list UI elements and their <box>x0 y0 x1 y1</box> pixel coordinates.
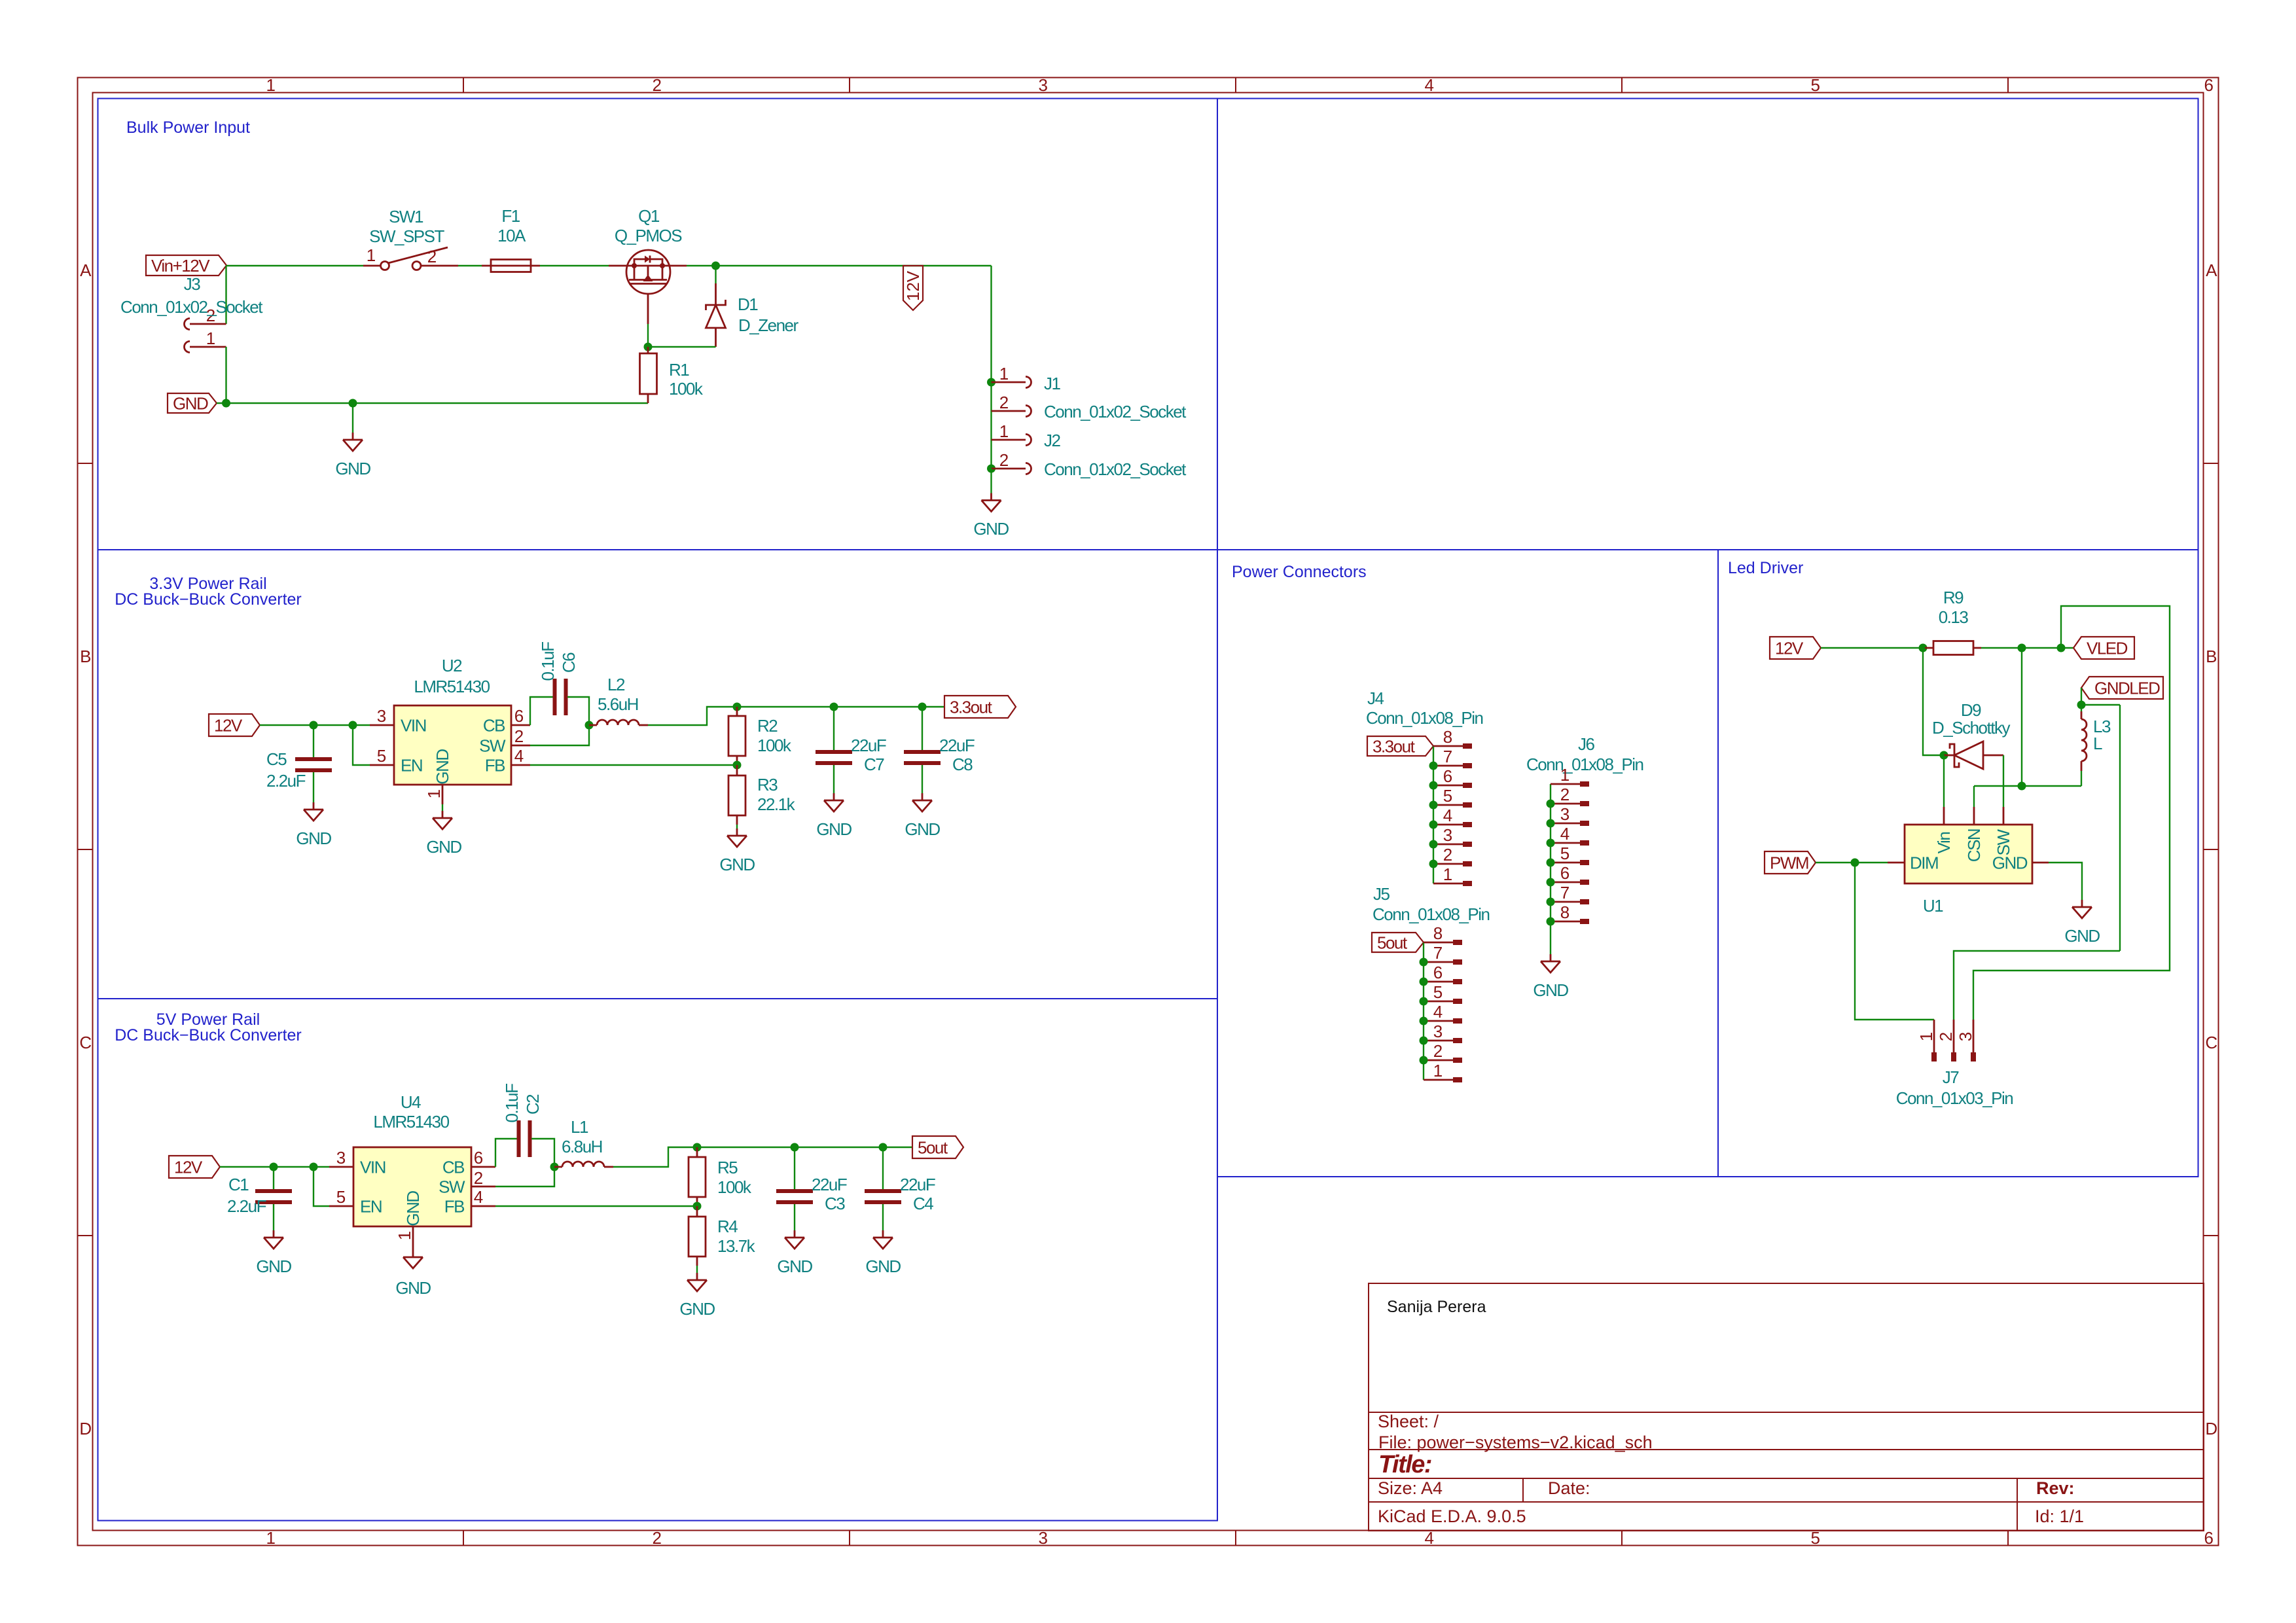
ground symbol (J6) <box>1541 954 1560 972</box>
svg-text:C1: C1 <box>228 1175 249 1194</box>
svg-text:J3: J3 <box>184 274 201 294</box>
svg-text:Conn_01x08_Pin: Conn_01x08_Pin <box>1526 755 1643 774</box>
connector J1 pin 2 <box>992 406 1031 417</box>
row letters right <box>2205 260 2217 1438</box>
svg-text:PWM: PWM <box>1770 853 1808 873</box>
svg-text:6.8uH: 6.8uH <box>562 1137 602 1156</box>
svg-text:22uF: 22uF <box>851 736 886 755</box>
svg-text:GNDLED: GNDLED <box>2094 679 2160 698</box>
junction EN tap (5V) <box>310 1163 318 1171</box>
svg-text:3: 3 <box>336 1148 346 1168</box>
svg-text:5.6uH: 5.6uH <box>598 694 638 714</box>
hierarchical label VLED <box>2073 637 2134 659</box>
wire L1 to output rail <box>613 1147 912 1167</box>
hierarchical label Vin+12V <box>146 255 226 276</box>
title block outline <box>1369 1283 2204 1531</box>
svg-text:22.1k: 22.1k <box>757 794 796 814</box>
wire EN branch <box>353 725 370 765</box>
svg-text:12V: 12V <box>214 716 243 736</box>
wire R9 to CSN rail vertical <box>2021 648 2022 786</box>
wire GND rail <box>217 402 648 404</box>
svg-text:2: 2 <box>999 450 1009 470</box>
svg-text:Vin+12V: Vin+12V <box>151 256 210 276</box>
svg-text:Sheet: /: Sheet: / <box>1378 1412 1439 1431</box>
capacitor C6 (bootstrap) <box>555 679 566 715</box>
svg-text:100k: 100k <box>757 736 792 755</box>
junction VLED branch <box>2057 644 2066 652</box>
wire J4 bus <box>1433 746 1434 883</box>
svg-text:3: 3 <box>1956 1032 1975 1041</box>
svg-text:FB: FB <box>444 1197 464 1217</box>
IC U1 led driver <box>1888 807 2049 883</box>
svg-text:3: 3 <box>1433 1022 1443 1041</box>
svg-text:L2: L2 <box>607 675 625 694</box>
svg-text:Title:: Title: <box>1378 1451 1431 1478</box>
connector J6 pin 4 <box>1547 824 1590 847</box>
wire C8 to ground <box>922 765 923 793</box>
ground symbol (C5) <box>304 802 323 821</box>
connector J7 pin 2 <box>1936 1020 1956 1061</box>
hierarchical label 3.3out <box>944 696 1016 718</box>
svg-text:C7: C7 <box>864 755 884 774</box>
wire GNDLED to L3 <box>2081 688 2082 711</box>
hierarchical label PWM <box>1765 851 1816 874</box>
wire Q1 gate to junction <box>647 324 649 347</box>
svg-text:22uF: 22uF <box>900 1175 935 1194</box>
svg-text:Power Connectors: Power Connectors <box>1232 563 1367 581</box>
svg-text:6: 6 <box>2204 75 2214 95</box>
svg-text:8: 8 <box>1443 727 1452 747</box>
wire L2 to output rail <box>648 707 944 725</box>
svg-text:KiCad E.D.A. 9.0.5: KiCad E.D.A. 9.0.5 <box>1378 1507 1526 1526</box>
svg-text:100k: 100k <box>669 379 704 399</box>
wire Vin+12V down to J3 pin2 <box>225 266 226 324</box>
power label 12V (3.3V rail) <box>209 714 260 736</box>
svg-text:5: 5 <box>336 1187 346 1207</box>
hierarchical label 5out (J5) <box>1372 933 1424 952</box>
svg-text:2: 2 <box>999 393 1009 412</box>
transistor Q1 Q_PMOS <box>609 250 687 324</box>
svg-text:Conn_01x02_Socket: Conn_01x02_Socket <box>1044 402 1187 421</box>
svg-text:1: 1 <box>1433 1061 1443 1080</box>
svg-text:R5: R5 <box>717 1158 738 1177</box>
capacitor C1 <box>255 1191 292 1202</box>
junction C1 tap <box>270 1163 278 1171</box>
svg-text:4: 4 <box>1433 1002 1443 1022</box>
connector J4 pin 7 <box>1429 747 1473 770</box>
title block date divider <box>1522 1478 1524 1502</box>
svg-text:2: 2 <box>653 75 662 95</box>
svg-text:1: 1 <box>1916 1032 1936 1041</box>
wire R4 to ground <box>696 1266 698 1273</box>
wire C4 top lead <box>882 1147 884 1189</box>
svg-text:2: 2 <box>1433 1041 1443 1061</box>
resistor R9 <box>1925 641 1981 655</box>
svg-text:U4: U4 <box>401 1092 421 1112</box>
junction gate node <box>644 343 653 351</box>
svg-text:U2: U2 <box>442 656 462 675</box>
svg-text:6: 6 <box>1433 963 1443 982</box>
wire J5 bus <box>1423 942 1424 1080</box>
frame column ticks top <box>463 78 2008 93</box>
svg-text:GND: GND <box>395 1278 431 1298</box>
power symbol 12V (bulk) <box>903 266 923 310</box>
svg-text:5: 5 <box>1433 982 1443 1002</box>
wire R9 to VLED <box>1981 647 2073 649</box>
svg-text:100k: 100k <box>717 1177 752 1197</box>
connector J2 pin 2 <box>992 463 1031 474</box>
svg-text:12V: 12V <box>174 1158 203 1177</box>
svg-text:1: 1 <box>206 329 215 348</box>
connector J4 pin 3 <box>1429 825 1473 849</box>
svg-text:GND: GND <box>1533 980 1568 1000</box>
wire Q1 drain to 12V rail corner <box>687 265 992 266</box>
ground symbol (C7) <box>824 793 844 811</box>
svg-text:DIM: DIM <box>1910 853 1938 873</box>
junction J1 pin1 <box>987 378 996 387</box>
hierarchical label GNDLED <box>2081 677 2163 699</box>
wire C2 right to SW node <box>531 1139 554 1167</box>
resistor R3 <box>728 765 745 825</box>
svg-text:D: D <box>79 1419 91 1438</box>
wire down to C5 <box>313 725 314 757</box>
junction CSN sense tap <box>2018 644 2026 652</box>
svg-text:DC Buck−Buck Converter: DC Buck−Buck Converter <box>115 1026 302 1044</box>
wire J3 pin1 to GND rail <box>225 347 226 403</box>
frame column ticks bottom <box>463 1531 2008 1546</box>
svg-text:4: 4 <box>514 746 524 766</box>
hierarchical label 3.3out (J4) <box>1367 736 1433 756</box>
ground symbol (bulk left) <box>343 433 363 451</box>
svg-text:J7: J7 <box>1943 1067 1960 1087</box>
junction GND symbol tap <box>349 399 357 408</box>
svg-text:GND: GND <box>426 837 461 857</box>
svg-text:GND: GND <box>335 459 370 478</box>
connector J4 pin 4 <box>1429 806 1473 829</box>
svg-text:5out: 5out <box>918 1138 948 1158</box>
connector J5 pin 2 <box>1420 1041 1463 1065</box>
svg-text:1: 1 <box>266 1528 276 1548</box>
svg-text:C: C <box>79 1033 91 1052</box>
blue divider vertical x2625 <box>1717 550 1719 1177</box>
wire C8 top lead <box>922 707 923 750</box>
svg-text:12V: 12V <box>903 270 923 301</box>
wire PWM to U1 DIM <box>1816 862 1888 863</box>
connector J6 pin 8 <box>1547 902 1590 926</box>
connector J4 pin 2 <box>1429 845 1473 868</box>
wire CB riser (5V) <box>495 1139 517 1167</box>
hierarchical label GND <box>168 393 217 413</box>
svg-text:D9: D9 <box>1961 700 1981 720</box>
ground symbol (C3) <box>785 1230 804 1249</box>
connector J5 pin 8 <box>1424 923 1462 945</box>
svg-text:VIN: VIN <box>360 1158 386 1177</box>
svg-text:GND: GND <box>256 1257 291 1276</box>
svg-text:7: 7 <box>1560 883 1570 902</box>
svg-text:10A: 10A <box>497 226 526 245</box>
svg-text:0.1uF: 0.1uF <box>538 642 558 681</box>
svg-text:J2: J2 <box>1044 431 1061 450</box>
IC U2 LMR51430 <box>370 705 530 804</box>
svg-text:R9: R9 <box>1943 588 1964 607</box>
junction FB node <box>733 761 742 770</box>
svg-text:12V: 12V <box>1775 639 1804 658</box>
svg-text:GND: GND <box>816 819 852 839</box>
wire SW pin riser <box>530 725 589 745</box>
ground symbol (R4) <box>687 1273 707 1291</box>
svg-text:7: 7 <box>1443 747 1452 766</box>
svg-text:2: 2 <box>1560 785 1570 804</box>
svg-text:4: 4 <box>1443 806 1452 825</box>
svg-text:6: 6 <box>2204 1528 2214 1548</box>
svg-text:6: 6 <box>1560 863 1570 883</box>
connector J5 pin 3 <box>1420 1022 1463 1045</box>
svg-text:L: L <box>2093 734 2102 753</box>
svg-text:5: 5 <box>1560 844 1570 863</box>
svg-text:GND: GND <box>905 819 940 839</box>
svg-text:6: 6 <box>514 706 524 726</box>
capacitor C5 <box>295 759 332 770</box>
svg-text:Conn_01x02_Socket: Conn_01x02_Socket <box>120 297 263 317</box>
svg-text:J6: J6 <box>1578 734 1595 754</box>
wire C1 to ground <box>273 1204 274 1230</box>
junction Q1 drain / D1 <box>711 262 720 270</box>
wire R3 to ground <box>736 825 738 829</box>
wire CB riser <box>530 697 553 725</box>
junction J3 pin1 / GND <box>222 399 230 408</box>
wire U2 GND pin to ground <box>442 804 443 811</box>
wire U1 GND to ground <box>2049 863 2082 900</box>
svg-text:GND: GND <box>777 1257 812 1276</box>
wire C3 top lead <box>794 1147 795 1189</box>
svg-text:1: 1 <box>266 75 276 95</box>
connector J4 pin 8 <box>1433 727 1472 749</box>
junction J2 pin2 <box>987 465 996 473</box>
svg-text:4: 4 <box>1425 75 1434 95</box>
connector J4 pin 1 <box>1433 865 1472 886</box>
blue right region box <box>1217 99 2198 1177</box>
wire L3 bottom to CSN rail <box>2081 771 2082 786</box>
junction D9 / U1 Vin <box>1940 751 1948 760</box>
wire 12V rail down to J1/J2 <box>990 266 992 469</box>
inductor L1 <box>554 1166 562 1168</box>
power label 12V (5V rail) <box>169 1156 220 1178</box>
svg-text:Bulk Power Input: Bulk Power Input <box>126 118 250 137</box>
wire D9 to U1 SW <box>2003 755 2004 807</box>
ground symbol (U4) <box>403 1250 423 1268</box>
svg-text:Conn_01x03_Pin: Conn_01x03_Pin <box>1896 1088 2013 1108</box>
svg-text:C4: C4 <box>913 1194 933 1213</box>
junction R5 top <box>693 1143 702 1152</box>
capacitor C4 <box>865 1191 901 1202</box>
svg-text:1: 1 <box>999 364 1009 383</box>
svg-text:3: 3 <box>1039 1528 1048 1548</box>
connector J3 pin 2 <box>185 319 226 330</box>
wire CSN sense rail <box>1974 785 2081 787</box>
junction C8 top <box>918 703 927 711</box>
connector J1 pin 1 <box>992 377 1031 388</box>
svg-text:SW_SPST: SW_SPST <box>369 226 444 246</box>
svg-text:1: 1 <box>999 421 1009 441</box>
svg-text:1: 1 <box>395 1231 414 1240</box>
svg-text:C3: C3 <box>825 1194 845 1213</box>
wire Vin+12V to SW1 <box>226 265 363 266</box>
connector J7 pin 3 <box>1956 1020 1976 1061</box>
wire C5 to ground <box>313 772 314 802</box>
resistor R4 <box>689 1206 706 1266</box>
wire C4 to ground <box>882 1204 884 1230</box>
svg-text:Vin: Vin <box>1934 832 1954 854</box>
wire 12V to U4 VIN <box>220 1166 329 1168</box>
svg-text:D1: D1 <box>738 294 758 314</box>
column numbers top <box>266 75 2214 95</box>
svg-text:CSN: CSN <box>1964 829 1984 862</box>
ground symbol (U2) <box>433 811 452 829</box>
svg-text:4: 4 <box>1560 824 1570 844</box>
resistor R1 <box>640 347 657 403</box>
svg-text:SW: SW <box>439 1177 465 1197</box>
svg-text:GND: GND <box>403 1191 423 1226</box>
svg-text:2: 2 <box>427 247 437 266</box>
svg-text:1: 1 <box>424 789 444 798</box>
connector J6 pin 2 <box>1547 785 1590 808</box>
svg-text:C: C <box>2205 1033 2217 1052</box>
svg-text:B: B <box>80 647 90 666</box>
ground symbol (J1/J2) <box>982 493 1001 512</box>
wire gate node to D1 <box>648 346 716 348</box>
svg-text:Conn_01x08_Pin: Conn_01x08_Pin <box>1372 904 1490 924</box>
svg-text:A: A <box>2206 260 2217 280</box>
ground symbol (C1) <box>264 1230 283 1249</box>
inductor L2 <box>589 724 597 726</box>
svg-text:1: 1 <box>367 245 376 265</box>
blue divider horizontal y840 <box>98 549 2198 550</box>
junction SW node <box>585 721 594 730</box>
svg-text:U1: U1 <box>1923 896 1943 916</box>
junction GNDLED node <box>2077 701 2086 709</box>
power label 12V (led driver) <box>1770 637 1821 659</box>
wire GNDLED right drop <box>2119 705 2121 951</box>
svg-text:Id: 1/1: Id: 1/1 <box>2035 1507 2084 1526</box>
junction R9 left <box>1919 644 1928 652</box>
connector J6 pin 1 <box>1551 765 1589 787</box>
svg-text:GND: GND <box>973 519 1009 539</box>
svg-text:1: 1 <box>1443 865 1452 884</box>
ground symbol (U1) <box>2072 900 2092 918</box>
resistor R5 <box>689 1147 706 1206</box>
svg-text:Q1: Q1 <box>638 206 660 226</box>
wire C6 right to SW node <box>567 697 589 725</box>
svg-text:0.13: 0.13 <box>1939 607 1969 627</box>
svg-text:4: 4 <box>474 1187 483 1207</box>
wire GNDLED over to right drop <box>2081 704 2120 705</box>
connector J5 pin 1 <box>1424 1061 1462 1082</box>
connector J6 pin 6 <box>1547 863 1590 887</box>
frame row ticks left <box>78 463 93 1236</box>
junction C4 top <box>879 1143 888 1152</box>
svg-text:C2: C2 <box>523 1094 543 1115</box>
fuse F1 <box>482 265 540 267</box>
svg-text:R1: R1 <box>669 360 689 380</box>
svg-text:3: 3 <box>1443 825 1452 845</box>
connector J5 pin 7 <box>1420 943 1463 967</box>
connector J6 pin 5 <box>1547 844 1590 867</box>
wire FB line <box>530 764 737 766</box>
connector J5 pin 5 <box>1420 982 1463 1006</box>
svg-text:2.2uF: 2.2uF <box>266 771 306 791</box>
junction FB node (5V) <box>693 1202 702 1211</box>
diode D1 D_Zener <box>706 283 726 347</box>
svg-text:VLED: VLED <box>2087 639 2128 658</box>
capacitor C2 (bootstrap) <box>519 1120 530 1157</box>
connector J3 pin 1 <box>185 342 226 353</box>
connector J4 pin 5 <box>1429 786 1473 810</box>
svg-text:F1: F1 <box>501 206 520 226</box>
svg-text:J1: J1 <box>1044 374 1061 393</box>
svg-text:1: 1 <box>1560 765 1570 785</box>
capacitor C3 <box>776 1191 813 1202</box>
junction SW node (5V) <box>550 1163 559 1171</box>
svg-text:GND: GND <box>2064 926 2100 946</box>
wire 12V to U2 VIN <box>260 724 370 726</box>
svg-text:GND: GND <box>173 394 208 414</box>
wire J2 to ground <box>990 469 992 493</box>
wire U1 CSN riser <box>1973 786 1975 807</box>
wire D1 top lead <box>715 266 716 283</box>
svg-text:Conn_01x02_Socket: Conn_01x02_Socket <box>1044 459 1187 479</box>
svg-text:2: 2 <box>514 726 524 746</box>
svg-text:D_Zener: D_Zener <box>738 315 798 335</box>
svg-text:File: power−systems−v2.kicad_s: File: power−systems−v2.kicad_sch <box>1378 1433 1653 1452</box>
svg-text:Date:: Date: <box>1548 1478 1590 1498</box>
wire J6 bus <box>1550 784 1551 954</box>
svg-text:C5: C5 <box>266 749 287 769</box>
wire 12V to R9 <box>1821 647 1925 649</box>
svg-text:R4: R4 <box>717 1217 738 1236</box>
connector J6 pin 7 <box>1547 883 1590 906</box>
column numbers bottom <box>266 1528 2214 1548</box>
svg-text:Sanija Perera: Sanija Perera <box>1387 1298 1486 1316</box>
connector J5 pin 4 <box>1420 1002 1463 1026</box>
resistor R2 <box>728 707 745 765</box>
junction EN tap <box>349 721 357 730</box>
svg-text:GND: GND <box>296 829 331 848</box>
wire VLED top run <box>1973 606 2170 1020</box>
wire C3 to ground <box>794 1204 795 1230</box>
svg-text:2: 2 <box>653 1528 662 1548</box>
svg-text:GND: GND <box>433 749 452 785</box>
wire FB line (5V) <box>495 1205 697 1207</box>
svg-text:GND: GND <box>679 1299 715 1319</box>
wire C7 to ground <box>833 765 834 793</box>
svg-text:5: 5 <box>377 746 386 766</box>
svg-text:2: 2 <box>1443 845 1452 865</box>
wire EN branch (5V) <box>314 1167 329 1206</box>
svg-text:VIN: VIN <box>401 716 426 736</box>
svg-text:LMR51430: LMR51430 <box>414 677 490 696</box>
wire SW1 to F1 <box>458 265 482 266</box>
title block rev divider <box>2017 1478 2018 1531</box>
blue divider horizontal y1526 <box>98 998 1218 999</box>
svg-text:J5: J5 <box>1373 884 1390 904</box>
svg-text:5: 5 <box>1811 75 1820 95</box>
row letters left <box>79 260 92 1438</box>
svg-text:CB: CB <box>483 716 505 736</box>
wire SW pin riser (5V) <box>495 1167 554 1186</box>
wire down to C1 <box>273 1167 274 1189</box>
ground symbol (C4) <box>873 1230 893 1249</box>
inductor L3 <box>2081 711 2083 719</box>
